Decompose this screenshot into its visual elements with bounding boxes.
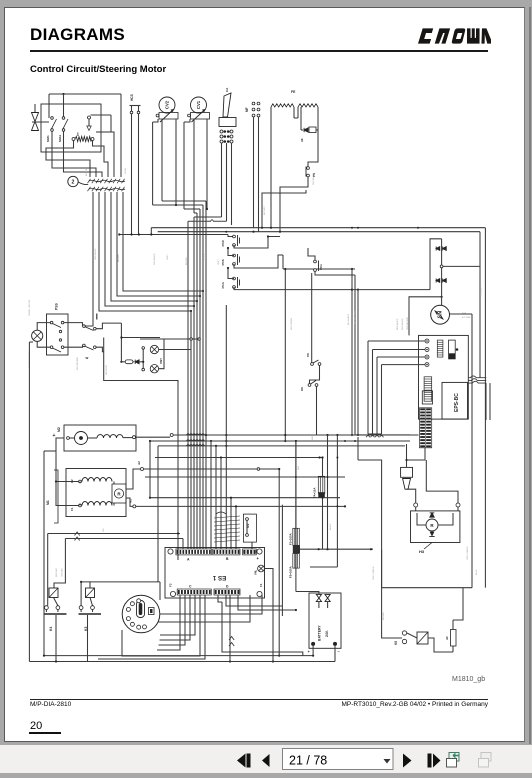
junction — [318, 548, 320, 550]
wire bus L3 — [158, 445, 405, 447]
wire — [131, 106, 133, 112]
terminal — [67, 437, 70, 440]
svg-text:F1: F1 — [259, 583, 263, 587]
motor SN — [431, 305, 450, 324]
terminal — [233, 286, 236, 289]
battery cell 2 — [325, 594, 330, 601]
svg-text:GRN-BLK: GRN-BLK — [62, 567, 64, 577]
wire — [457, 507, 459, 511]
wire — [160, 595, 262, 614]
tick mark — [96, 314, 98, 320]
wire — [231, 143, 233, 225]
wire feed CV1b — [194, 212, 197, 214]
wire — [51, 132, 53, 153]
wire — [96, 347, 104, 352]
wire — [295, 441, 297, 528]
EPS pin — [425, 363, 429, 367]
junction — [284, 440, 286, 442]
junction — [224, 130, 227, 133]
wire — [57, 610, 59, 613]
wire — [322, 497, 324, 549]
harness node 2 — [68, 176, 78, 186]
junction — [206, 208, 208, 210]
junction — [295, 440, 297, 442]
diode — [135, 360, 139, 364]
svg-text:W: W — [86, 356, 89, 360]
wire — [367, 341, 369, 434]
wire — [87, 615, 89, 662]
junction — [235, 505, 237, 507]
terminal — [59, 330, 61, 332]
terminal — [230, 135, 233, 138]
wire — [297, 107, 299, 118]
junction — [230, 497, 232, 499]
terminal — [220, 130, 223, 133]
wire — [415, 507, 417, 511]
wire — [228, 268, 234, 279]
wire — [311, 273, 313, 363]
wire — [29, 341, 33, 343]
svg-text:HCS: HCS — [130, 94, 134, 101]
wire — [322, 458, 324, 477]
wire — [417, 513, 426, 525]
terminal — [246, 518, 249, 521]
terminal — [130, 111, 133, 114]
svg-text:PC: PC — [306, 352, 310, 357]
wire bundle 2 — [190, 311, 192, 549]
junction — [118, 233, 120, 235]
arrowhead — [202, 109, 206, 112]
fuse — [293, 554, 300, 569]
wire — [47, 534, 49, 589]
wire — [92, 610, 94, 613]
wire — [231, 221, 233, 225]
wire — [234, 237, 280, 249]
lamp VNL — [258, 565, 265, 572]
wire — [150, 228, 152, 235]
terminal — [50, 321, 53, 324]
svg-text:−: − — [338, 649, 341, 654]
wire left rail 2 — [43, 451, 45, 656]
button previous view — [447, 753, 460, 768]
junction — [295, 476, 297, 478]
wire — [406, 444, 408, 467]
wire — [70, 437, 75, 439]
wire — [246, 521, 248, 534]
wire — [158, 595, 250, 622]
svg-text:H3: H3 — [419, 549, 425, 554]
motor M2 — [75, 432, 88, 445]
junction — [227, 135, 230, 138]
wire — [438, 513, 453, 525]
wire M2 stub — [136, 436, 171, 438]
junction — [272, 660, 274, 662]
footer rule — [30, 699, 488, 700]
svg-text:STEERING: STEERING — [481, 286, 483, 297]
svg-text:CV1: CV1 — [196, 100, 201, 109]
heading DIAGRAMS — [30, 25, 125, 45]
terminal — [307, 167, 310, 170]
connector EPS bottom — [419, 408, 431, 448]
svg-text:BLU-BLACK: BLU-BLACK — [347, 313, 350, 325]
junction — [120, 361, 122, 363]
svg-text:GREY: GREY — [167, 254, 169, 260]
svg-text:CA: CA — [225, 87, 229, 92]
wire — [184, 119, 190, 122]
svg-text:24V.: 24V. — [325, 630, 329, 637]
diode — [443, 247, 447, 251]
terminal — [50, 346, 53, 349]
junction — [351, 434, 353, 436]
terminal — [142, 347, 145, 350]
terminal — [230, 140, 233, 143]
svg-text:M2: M2 — [57, 427, 61, 432]
svg-text:VNT: VNT — [159, 358, 163, 364]
wire — [351, 269, 353, 435]
wire — [139, 361, 143, 363]
terminal A1 — [133, 505, 136, 508]
wire — [258, 117, 260, 232]
terminal — [156, 114, 159, 117]
svg-text:A-P 20AV: A-P 20AV — [462, 316, 471, 319]
wire EPS pin feed 4 — [382, 364, 426, 366]
wire — [428, 638, 453, 652]
wire — [56, 438, 64, 482]
svg-text:21 / 78: 21 / 78 — [289, 754, 327, 768]
wire — [234, 287, 352, 290]
wire — [96, 323, 121, 329]
wiper arrow — [160, 109, 174, 122]
junction — [405, 459, 407, 461]
junction — [441, 296, 443, 298]
wire feed CAa — [194, 216, 222, 218]
wire — [310, 566, 337, 568]
arrow — [87, 126, 91, 131]
terminal A2 — [141, 468, 144, 471]
junction — [278, 655, 280, 657]
wire enclosure drop — [104, 338, 178, 561]
wire — [79, 482, 81, 484]
wire — [44, 450, 56, 452]
terminal — [257, 114, 260, 117]
resistor PT — [75, 136, 91, 141]
terminal — [79, 606, 83, 610]
pot body CV2 — [159, 113, 178, 120]
terminal — [61, 321, 64, 324]
svg-text:M1: M1 — [46, 500, 50, 505]
wire — [355, 434, 410, 436]
wire — [308, 248, 315, 260]
junction — [220, 456, 222, 458]
wire — [206, 119, 208, 209]
wire hop knots — [186, 434, 204, 446]
wire bus A2 — [143, 468, 279, 470]
wire harness 4 — [117, 192, 200, 296]
box R — [112, 484, 126, 503]
svg-text:BROWN: BROWN — [118, 254, 120, 262]
junction — [215, 445, 217, 447]
terminal strip C — [243, 549, 257, 555]
terminal — [83, 344, 86, 347]
svg-text:GREY-GREEN: GREY-GREEN — [467, 546, 469, 560]
diode H3 bottom — [429, 532, 434, 537]
page combo box — [283, 749, 394, 770]
potentiometer CV2 — [159, 97, 175, 113]
terminal — [233, 235, 236, 238]
wire — [54, 539, 65, 589]
terminal — [307, 174, 310, 177]
switch — [51, 117, 57, 132]
footer left — [30, 701, 71, 708]
terminal — [233, 254, 236, 257]
terminal H3 R — [456, 503, 460, 507]
wire — [64, 152, 103, 177]
connector EPS main — [424, 377, 432, 401]
wire — [452, 620, 454, 630]
connector pin — [130, 602, 134, 606]
junction — [336, 505, 338, 507]
M1810_gb tag — [452, 676, 485, 683]
wire — [113, 503, 115, 506]
loom arc — [216, 512, 226, 514]
wire harness 2 — [105, 192, 194, 306]
potentiometer CV1 — [191, 97, 207, 113]
junction — [370, 548, 372, 550]
wire bus top-left — [49, 93, 121, 95]
terminal — [252, 108, 255, 111]
box M1 — [66, 469, 126, 517]
relay K4 bar — [44, 613, 67, 615]
junction — [62, 93, 64, 95]
cap F5 body — [449, 340, 456, 359]
junction — [336, 457, 338, 459]
brace — [54, 470, 58, 523]
wire — [46, 141, 90, 178]
junction — [227, 247, 229, 249]
switch — [62, 117, 68, 132]
arrowhead — [171, 109, 175, 112]
wire drop — [235, 506, 237, 549]
svg-text:PCA: PCA — [221, 281, 225, 288]
junction — [417, 227, 419, 229]
wire — [122, 595, 200, 656]
field coil F1 — [82, 502, 112, 506]
wire — [54, 598, 58, 606]
wire squiggle — [78, 182, 88, 185]
wire diode branch top — [430, 239, 442, 290]
svg-text:PT: PT — [76, 132, 80, 136]
wire — [37, 341, 50, 347]
diode — [436, 279, 440, 283]
diode dot — [456, 348, 459, 351]
terminal — [190, 338, 192, 340]
wire drop right 1 — [278, 469, 280, 656]
wire — [182, 539, 184, 549]
relay box MM — [41, 104, 101, 152]
button previous page — [262, 754, 270, 767]
box M2 — [64, 425, 136, 451]
wire EPS pin feed 2 — [373, 349, 426, 351]
mount ear br — [257, 591, 262, 596]
wire HCS bus — [119, 234, 228, 236]
wire — [175, 119, 177, 205]
wire right rail — [471, 314, 473, 588]
junction — [284, 434, 286, 436]
terminal — [311, 363, 314, 366]
buzzer box — [401, 467, 413, 477]
wire — [228, 235, 233, 237]
svg-text:GREY-GREEN: GREY-GREEN — [373, 566, 375, 580]
terminal — [79, 504, 82, 507]
terminal strip B — [213, 549, 240, 555]
wire — [48, 94, 50, 118]
junction — [312, 655, 314, 657]
terminal — [142, 368, 145, 371]
junction — [55, 660, 57, 662]
terminal — [315, 384, 318, 387]
junction — [227, 140, 230, 143]
wire — [88, 119, 90, 126]
wire — [153, 119, 158, 122]
terminal — [56, 606, 60, 610]
button last page — [428, 754, 441, 768]
wire — [312, 645, 314, 656]
EPS enclosure — [419, 335, 469, 419]
wire — [138, 106, 140, 112]
wire — [120, 94, 122, 110]
wire bus A1 — [136, 505, 345, 507]
wire right bottom — [382, 587, 472, 589]
terminal — [233, 244, 236, 247]
motor R — [114, 489, 123, 498]
wire drop — [215, 446, 217, 549]
battery box — [309, 593, 341, 648]
wire — [358, 460, 382, 549]
terminal — [198, 338, 200, 340]
junction — [322, 457, 324, 459]
wire harness 3 — [111, 192, 197, 301]
EPS pin — [425, 339, 429, 343]
wire bundle 6 — [202, 205, 204, 549]
wire — [64, 323, 83, 327]
wire — [315, 272, 355, 276]
wire — [381, 365, 383, 434]
wire — [426, 460, 458, 503]
motor pump PSS — [32, 330, 43, 341]
junction — [279, 231, 281, 233]
wire — [152, 122, 154, 205]
wire PCA branch — [352, 289, 430, 291]
terminal — [252, 102, 255, 105]
wire — [452, 646, 454, 652]
junction — [177, 532, 179, 534]
wire — [159, 349, 191, 351]
junction — [80, 581, 82, 583]
wire — [234, 255, 283, 268]
wire — [354, 275, 356, 435]
terminal — [94, 327, 97, 330]
svg-text:GREY: GREY — [218, 259, 220, 265]
terminal — [88, 116, 91, 119]
junction — [55, 480, 57, 482]
wire bus L5 — [145, 476, 345, 478]
wire — [222, 602, 303, 656]
wire bus L2 — [150, 440, 410, 442]
junction — [193, 305, 195, 307]
wire harness 5 — [123, 192, 203, 291]
connector EPS small — [437, 340, 443, 357]
junction — [321, 456, 323, 458]
wire — [316, 129, 318, 131]
terminal — [252, 114, 255, 117]
button next view (disabled) — [479, 753, 492, 768]
wire — [79, 504, 81, 506]
wire drop long — [284, 269, 286, 441]
junction — [210, 440, 212, 442]
wire — [376, 357, 378, 434]
terminal H3 L — [414, 503, 418, 507]
terminal — [91, 138, 94, 141]
wire battery feed top — [296, 592, 319, 595]
wire — [372, 350, 374, 435]
connector pin — [126, 607, 130, 611]
horn H3 box — [411, 511, 460, 543]
wire — [453, 588, 463, 620]
svg-text:GRN-YELLOW: GRN-YELLOW — [355, 311, 357, 325]
svg-text:F2: F2 — [169, 583, 173, 587]
terminal strip D — [214, 589, 240, 595]
junction — [278, 468, 280, 470]
svg-text:ALIM.NE: ALIM.NE — [85, 167, 88, 176]
wire feed CV2a — [153, 204, 203, 206]
coil FE a — [271, 104, 294, 107]
wire — [308, 158, 318, 167]
inductor M2 — [97, 435, 123, 438]
terminal — [246, 534, 249, 537]
wire — [131, 114, 133, 235]
wire hop bar — [368, 433, 382, 435]
node — [440, 265, 443, 268]
button next page — [403, 754, 412, 768]
junction — [284, 268, 286, 270]
subtitle — [30, 64, 166, 75]
wire — [52, 152, 96, 177]
wire right border low — [484, 560, 486, 588]
terminal — [314, 260, 317, 263]
lamp VNT2 — [150, 365, 158, 373]
terminal — [233, 263, 236, 266]
field coil F2 — [82, 478, 112, 482]
svg-text:F1: F1 — [70, 507, 74, 511]
junction — [142, 361, 144, 363]
battery terminal - — [333, 642, 337, 646]
wire drop — [225, 305, 227, 549]
terminal — [402, 631, 406, 635]
junction — [351, 227, 353, 229]
junction — [130, 233, 132, 235]
junction — [225, 434, 227, 436]
wire — [130, 105, 141, 107]
terminal — [308, 384, 311, 387]
wire bundle 4 — [196, 213, 198, 549]
terminal — [61, 346, 64, 349]
wire — [407, 489, 416, 503]
wire bundle 1 — [187, 221, 189, 549]
svg-text:GRY: GRY — [103, 527, 105, 532]
terminal — [91, 606, 95, 610]
wiper arrow — [192, 109, 206, 122]
terminal — [230, 130, 233, 133]
